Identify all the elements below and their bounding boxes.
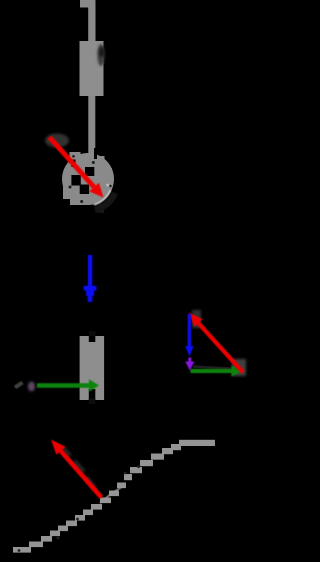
triangle purple component vector: [185, 358, 194, 371]
black wire stub below box2: [89, 398, 96, 404]
dark shadow along red arrow 2: [61, 446, 95, 489]
triangle green component vector: [191, 366, 243, 377]
blue gravity arrow 1: [84, 255, 97, 302]
disc dark outer arc: [95, 193, 115, 210]
black wire stub into box2 top: [89, 331, 96, 341]
disc bright arc: [94, 190, 111, 205]
triangle red vector: [189, 313, 243, 373]
wire below R1: [88, 96, 95, 160]
purple blob: [28, 382, 35, 392]
triangle blue component vector: [185, 314, 193, 357]
wire top horizontal stub: [80, 0, 96, 8]
black slot through box2: [89, 336, 96, 342]
red force arrow 1: [49, 137, 103, 197]
disc black holes: [71, 148, 97, 194]
red normal-force arrow 2: [51, 440, 102, 498]
disc white speck: [107, 184, 109, 186]
thin curve overlay: [100, 487, 122, 503]
green applied-force arrow: [37, 379, 99, 391]
gray halo at red arrow 1 tail: [45, 134, 69, 148]
gray stub left of green arrow: [15, 383, 23, 388]
resistor R1 dark label: [97, 44, 104, 66]
triangle: dark patch behind red head: [192, 310, 201, 328]
wire top vertical: [88, 0, 95, 42]
rotor disc: [62, 152, 114, 205]
resistor R1 body: [80, 41, 104, 96]
gray smudge at triangle corner C: [232, 359, 246, 376]
disc dots: [69, 155, 112, 203]
curved ramp (pixelated steps): [13, 440, 215, 553]
dots on ramp: [18, 465, 140, 551]
faint dark line above green: [193, 367, 239, 370]
dark wire stub below disc: [99, 204, 105, 213]
mass box M2: [80, 336, 105, 400]
